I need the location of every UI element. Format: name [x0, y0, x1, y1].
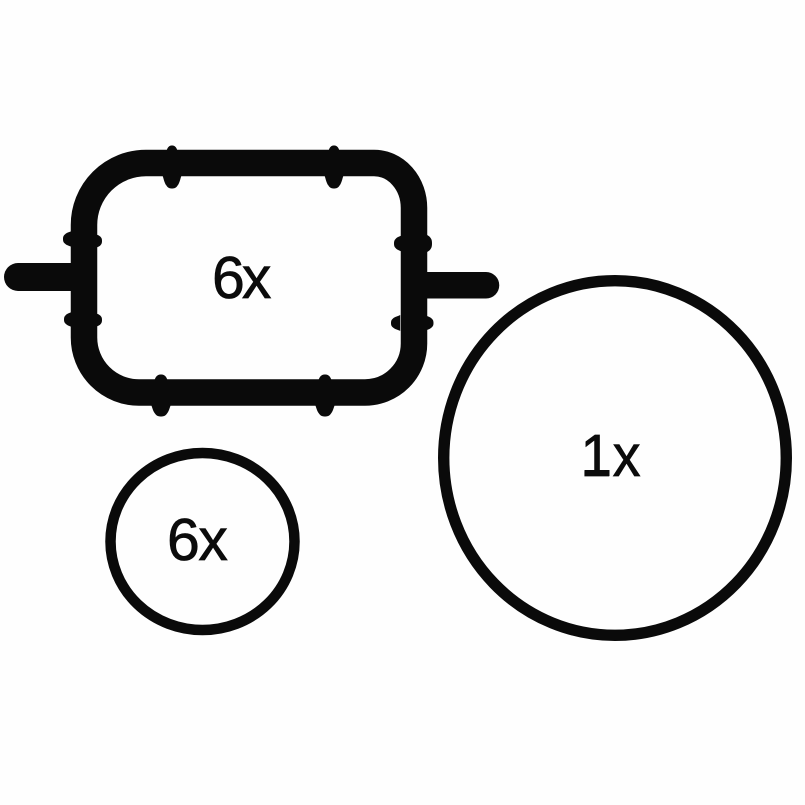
gasket G2: small O-ring seal — [111, 453, 295, 630]
base bar foot of digit 1 — [585, 470, 610, 476]
bottom edge outer nub 1 — [151, 404, 172, 417]
svg-text:1x: 1x — [581, 423, 642, 489]
svg-text:6x: 6x — [212, 245, 271, 311]
bottom edge inner nub 2 — [318, 375, 332, 381]
right edge inner nub upper — [394, 235, 402, 252]
right edge outer nub lower — [425, 315, 434, 331]
right edge inner nub lower — [391, 315, 400, 331]
left edge inner nub lower — [96, 313, 102, 327]
svg-text:6x: 6x — [167, 507, 227, 573]
gasket G1 right arm (port stub) — [405, 272, 499, 299]
right edge outer nub upper — [426, 234, 432, 253]
top edge outer nub 2 — [328, 146, 340, 152]
gasket G1 ring body: rounded-rectangle intake gasket — [84, 163, 414, 393]
top edge inner nub 1 — [162, 174, 182, 188]
gasket G3: large O-ring seal — [444, 281, 787, 636]
left edge outer nub upper — [63, 231, 73, 248]
left edge outer nub lower — [64, 312, 73, 328]
gasket G1 left arm (port stub) — [4, 263, 95, 291]
left edge inner nub upper — [96, 234, 102, 248]
bottom edge inner nub 1 — [154, 375, 168, 381]
top edge inner nub 2 — [324, 174, 344, 188]
bottom edge outer nub 2 — [315, 404, 336, 417]
top edge outer nub 1 — [166, 146, 178, 152]
